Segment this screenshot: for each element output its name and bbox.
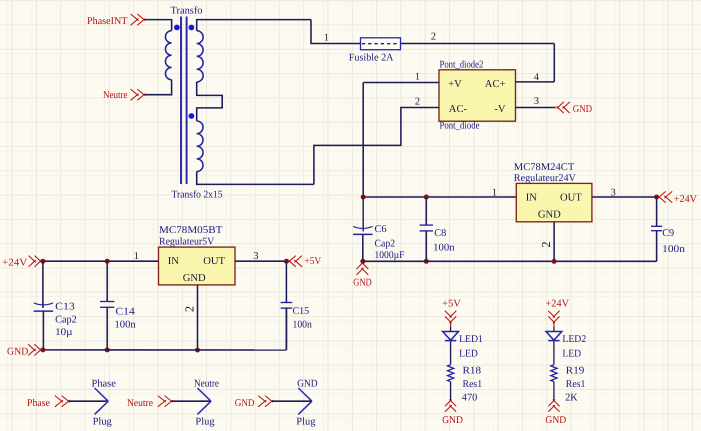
svg-text:Neutre: Neutre [127, 398, 153, 409]
svg-text:1000µF: 1000µF [375, 250, 405, 261]
svg-text:1: 1 [415, 72, 420, 83]
svg-text:GND: GND [235, 398, 255, 409]
svg-text:GND: GND [7, 347, 29, 358]
svg-text:+24V: +24V [2, 257, 28, 268]
svg-text:2: 2 [183, 306, 197, 312]
svg-text:Plug: Plug [296, 416, 315, 427]
svg-text:Cap2: Cap2 [375, 238, 396, 249]
svg-text:C14: C14 [115, 307, 134, 318]
svg-text:+24V: +24V [545, 298, 569, 309]
svg-text:C6: C6 [375, 224, 387, 235]
svg-text:Pont_diode2: Pont_diode2 [440, 60, 484, 71]
svg-text:PhaseINT: PhaseINT [87, 16, 128, 27]
svg-text:GND: GND [353, 277, 372, 288]
svg-text:C15: C15 [293, 306, 310, 317]
svg-text:LED2: LED2 [562, 334, 586, 345]
svg-text:R18: R18 [463, 365, 482, 376]
svg-text:GND: GND [573, 104, 593, 115]
svg-text:3: 3 [534, 96, 539, 107]
svg-text:+24V: +24V [674, 194, 698, 205]
svg-text:2: 2 [539, 241, 553, 247]
svg-text:1: 1 [324, 33, 329, 44]
svg-text:2: 2 [415, 97, 420, 108]
svg-text:C13: C13 [55, 301, 75, 312]
svg-text:Regulateur24V: Regulateur24V [514, 173, 577, 184]
svg-text:IN: IN [168, 256, 180, 267]
svg-text:IN: IN [526, 193, 538, 204]
svg-text:Res1: Res1 [566, 379, 586, 390]
svg-text:GND: GND [545, 415, 566, 426]
svg-text:1: 1 [492, 188, 497, 199]
svg-text:2: 2 [431, 32, 436, 43]
svg-text:MC78M05BT: MC78M05BT [159, 225, 223, 236]
svg-text:GND: GND [183, 273, 206, 284]
svg-text:Neutre: Neutre [103, 90, 128, 101]
svg-text:470: 470 [462, 393, 477, 404]
svg-text:100n: 100n [433, 243, 454, 254]
svg-text:Res1: Res1 [463, 379, 483, 390]
svg-text:100n: 100n [293, 320, 312, 331]
svg-text:R19: R19 [566, 365, 585, 376]
svg-text:+5V: +5V [442, 298, 461, 309]
svg-text:AC-: AC- [449, 104, 468, 115]
svg-text:2K: 2K [565, 393, 578, 404]
svg-text:10µ: 10µ [55, 327, 72, 338]
svg-text:Plug: Plug [195, 416, 214, 427]
svg-text:GND: GND [297, 378, 318, 389]
svg-text:LED: LED [562, 348, 581, 359]
svg-text:C9: C9 [662, 228, 674, 239]
svg-text:-V: -V [494, 104, 506, 115]
svg-text:100n: 100n [662, 244, 685, 255]
svg-text:Transfo 2x15: Transfo 2x15 [172, 189, 223, 200]
svg-text:Regulateur5V: Regulateur5V [159, 237, 215, 248]
svg-text:4: 4 [534, 72, 539, 83]
svg-text:AC+: AC+ [485, 79, 506, 90]
svg-text:OUT: OUT [203, 256, 225, 267]
svg-text:+V: +V [448, 79, 462, 90]
svg-text:Transfo: Transfo [171, 5, 203, 16]
svg-text:C8: C8 [434, 228, 446, 239]
svg-text:LED1: LED1 [459, 334, 483, 345]
svg-text:Cap2: Cap2 [55, 315, 77, 326]
svg-text:Plug: Plug [93, 416, 112, 427]
svg-text:GND: GND [442, 415, 463, 426]
svg-text:LED: LED [459, 348, 478, 359]
svg-text:Phase: Phase [27, 398, 50, 409]
svg-text:Neutre: Neutre [194, 378, 219, 389]
svg-text:100n: 100n [115, 320, 136, 331]
svg-text:Pont_diode: Pont_diode [440, 120, 480, 131]
svg-text:Phase: Phase [92, 378, 117, 389]
svg-text:Fusible 2A: Fusible 2A [349, 52, 394, 63]
svg-text:+5V: +5V [304, 256, 321, 267]
svg-text:OUT: OUT [560, 193, 582, 204]
svg-text:1: 1 [134, 251, 139, 262]
svg-text:MC78M24CT: MC78M24CT [514, 162, 575, 173]
svg-text:GND: GND [538, 209, 561, 220]
